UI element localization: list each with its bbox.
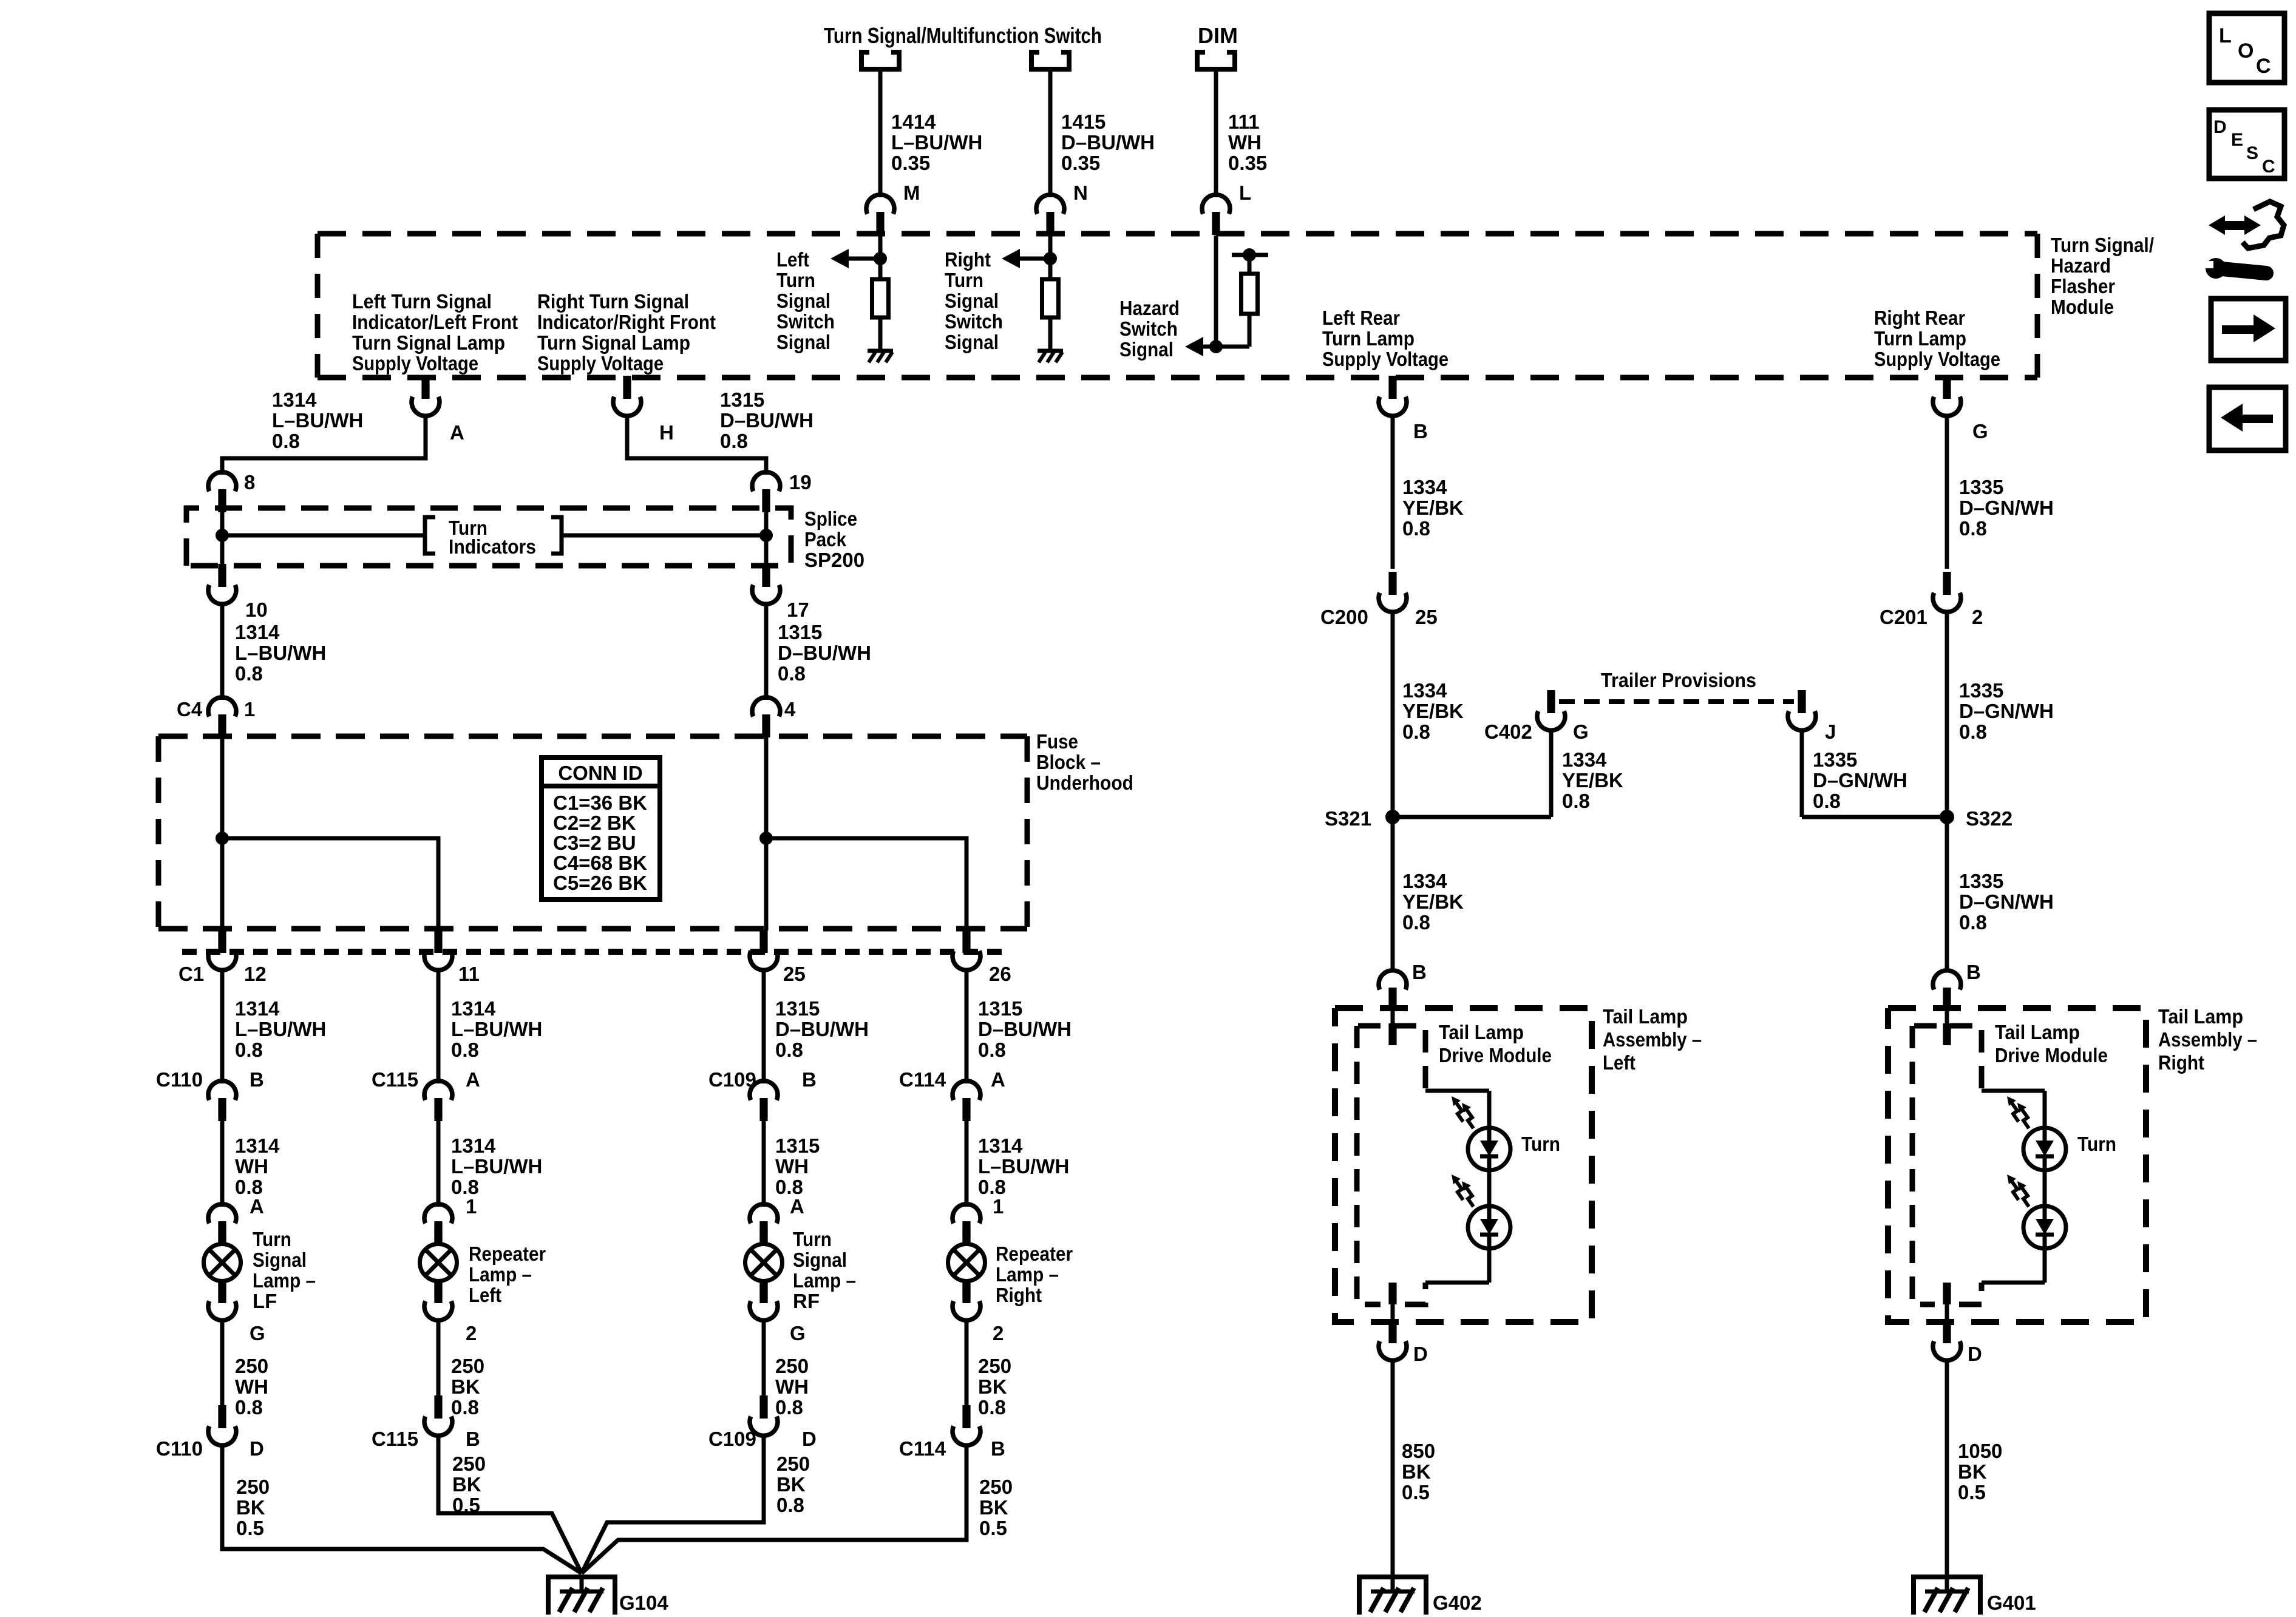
icon left-arrow box: [2209, 387, 2286, 450]
label C114 (bottom): [899, 1437, 946, 1460]
svg-text:Right Rear: Right Rear: [1874, 307, 1965, 329]
label Turn Signal/Multifunction Switch: [824, 23, 1102, 48]
svg-text:1415: 1415: [1061, 110, 1106, 133]
svg-text:Block –: Block –: [1036, 751, 1101, 773]
svg-text:O: O: [2238, 39, 2254, 63]
label wire 1334 YE/BK 0.8 (below C200): [1402, 679, 1464, 743]
svg-text:Tail Lamp: Tail Lamp: [1603, 1005, 1688, 1028]
label C1: [178, 963, 204, 985]
connector C201 pin 2: [1933, 572, 1961, 612]
ground (module internal, left): [868, 351, 893, 362]
bracket right of Turn Indicators: [551, 517, 562, 554]
svg-text:BK: BK: [1402, 1460, 1431, 1483]
svg-text:1334: 1334: [1402, 870, 1447, 892]
label G104: [619, 1592, 668, 1614]
svg-text:Signal: Signal: [776, 331, 830, 353]
label Right Turn Signal Indicator/Right Front Turn Signal Lamp Supply Voltage: [537, 290, 716, 375]
wire drive module to LEDs (right): [1982, 1091, 2045, 1128]
label pin D (left): [1413, 1343, 1428, 1365]
svg-text:Signal: Signal: [776, 290, 830, 312]
svg-text:1314: 1314: [978, 1134, 1023, 1157]
svg-text:S321: S321: [1325, 807, 1371, 830]
icon LOC box: [2209, 13, 2284, 83]
svg-text:C4: C4: [177, 698, 203, 720]
junction on wire L: [1209, 340, 1223, 353]
wire splice to pin 10: [220, 535, 225, 569]
svg-text:0.8: 0.8: [978, 1396, 1006, 1419]
svg-text:1050: 1050: [1958, 1440, 2002, 1462]
label lamp pin 2: [993, 1322, 1004, 1344]
label Tail Lamp Drive Module (left): [1439, 1021, 1552, 1066]
svg-text:S: S: [2246, 143, 2258, 163]
label Turn Signal/Hazard Flasher Module: [2051, 234, 2154, 318]
wire C115 pin B to ground G104: [438, 1434, 582, 1573]
svg-text:1315: 1315: [775, 997, 820, 1020]
svg-text:0.8: 0.8: [451, 1039, 479, 1061]
svg-text:0.8: 0.8: [272, 430, 300, 452]
module border top: Turn Signal/Hazard Flasher Module: [318, 231, 2037, 237]
connector C110 pin D (bottom): [208, 1405, 236, 1445]
label pin 12: [244, 963, 267, 985]
svg-text:Turn: Turn: [1521, 1133, 1560, 1155]
svg-text:Signal: Signal: [793, 1249, 847, 1271]
connector pin 1 (Repeater Lamp - Right): [953, 1204, 980, 1244]
wire 1314 C110 drop: [220, 969, 225, 1083]
label lamp pin A: [250, 1195, 264, 1218]
module border right: [2035, 234, 2040, 378]
svg-text:L–BU/WH: L–BU/WH: [235, 1018, 326, 1040]
svg-text:1334: 1334: [1402, 679, 1447, 702]
label C114: [899, 1068, 946, 1091]
connector pin 8 (splice pack): [208, 472, 236, 512]
wire 1335 module to C201: [1945, 415, 1949, 569]
svg-text:BK: BK: [1958, 1460, 1987, 1483]
svg-text:Lamp –: Lamp –: [469, 1263, 532, 1286]
svg-text:D: D: [250, 1437, 264, 1460]
svg-text:Turn Signal/: Turn Signal/: [2051, 234, 2154, 256]
connector C114 pin B (bottom): [953, 1405, 980, 1445]
label ground wire 250 BK/0.5 (C110): [236, 1476, 270, 1539]
wire M to resistor: [878, 259, 883, 279]
svg-text:1314: 1314: [451, 1134, 496, 1157]
wire branch to pin 26: [766, 838, 966, 931]
svg-text:Repeater: Repeater: [469, 1242, 546, 1265]
svg-text:B: B: [1413, 420, 1428, 442]
svg-text:Switch: Switch: [945, 310, 1003, 333]
svg-text:Tail Lamp: Tail Lamp: [1439, 1021, 1524, 1043]
connector pin 10 (splice pack): [208, 564, 236, 604]
wire 250 below lamp 09: [762, 1319, 766, 1398]
lamp symbol: Turn Signal Lamp - LF: [204, 1227, 241, 1298]
arrow hazard switch signal: [1185, 337, 1216, 356]
svg-text:1315: 1315: [978, 997, 1022, 1020]
svg-text:2: 2: [466, 1322, 477, 1344]
junction on wire N: [1044, 252, 1057, 265]
tail lamp drive module left box: [1357, 1026, 1425, 1304]
label ground wire 250 BK/0.5 (C114): [979, 1476, 1013, 1539]
svg-text:A: A: [466, 1068, 480, 1091]
svg-text:111: 111: [1228, 110, 1259, 133]
svg-text:C: C: [2256, 55, 2271, 78]
LED turn lamp 2 (left): [1452, 1175, 1510, 1249]
wire drive module to LEDs (left): [1425, 1091, 1489, 1128]
connector pin B (flasher module left rear): [1379, 376, 1407, 416]
svg-text:Turn Lamp: Turn Lamp: [1874, 327, 1966, 350]
svg-text:Supply Voltage: Supply Voltage: [537, 352, 664, 375]
label wire 1314 L–BU/WH/0.8 (to Repeater Lamp - Right): [978, 1134, 1069, 1198]
ground G402 symbol: [1359, 1577, 1426, 1615]
label wire 1314 WH/0.8 (to Turn Signal Lamp - LF): [235, 1134, 280, 1198]
svg-text:0.8: 0.8: [775, 1039, 803, 1061]
svg-text:1: 1: [244, 698, 255, 720]
label CONN ID rows: [553, 792, 647, 894]
fuse block border left: [156, 736, 161, 929]
svg-text:Turn: Turn: [2077, 1133, 2116, 1155]
label wire 1314 L-BU/WH 0.8 (to fuse block): [235, 621, 326, 685]
svg-text:Lamp –: Lamp –: [253, 1269, 316, 1292]
svg-text:Pack: Pack: [804, 528, 847, 551]
svg-text:C1: C1: [178, 963, 204, 985]
connector C109 pin D (bottom): [750, 1395, 778, 1436]
label Turn Indicators: [449, 517, 536, 558]
LED turn lamp 1 (right): [2007, 1096, 2066, 1170]
wire pin8 into splice bus: [220, 508, 225, 535]
label Tail Lamp Assembly - left: [1603, 1005, 1702, 1074]
splice S322: [1940, 810, 1954, 824]
svg-text:D–BU/WH: D–BU/WH: [775, 1018, 869, 1040]
wire LEDs return to drive module (right): [1982, 1249, 2045, 1283]
svg-text:250: 250: [236, 1476, 270, 1498]
svg-text:WH: WH: [775, 1375, 809, 1398]
wire 1315 to Turn Signal Lamp - RF: [762, 1120, 766, 1207]
label ground wire 250 BK/0.5 (C115): [452, 1453, 486, 1516]
connector C1 pin 25: [750, 930, 778, 970]
svg-text:D: D: [2213, 117, 2227, 137]
svg-text:Supply Voltage: Supply Voltage: [352, 352, 478, 375]
label pin B (module): [1413, 420, 1428, 442]
svg-text:C3=2 BU: C3=2 BU: [553, 832, 636, 854]
tail lamp assembly left outer box: [1335, 1008, 1592, 1322]
connector C1 pin 26: [953, 930, 980, 970]
svg-text:C110: C110: [156, 1068, 203, 1091]
connector C200 pin 25: [1379, 572, 1407, 612]
svg-text:A: A: [250, 1195, 264, 1218]
label Tail Lamp Drive Module (right): [1995, 1021, 2108, 1066]
svg-text:D–GN/WH: D–GN/WH: [1959, 497, 2054, 519]
label Fuse Block - Underhood: [1036, 730, 1133, 794]
svg-text:G104: G104: [619, 1592, 668, 1614]
module border bottom: [318, 375, 2037, 381]
svg-text:Turn Signal Lamp: Turn Signal Lamp: [537, 331, 690, 354]
svg-text:B: B: [1966, 961, 1981, 983]
svg-text:BK: BK: [978, 1375, 1007, 1398]
label lamp pin 2: [466, 1322, 477, 1344]
svg-text:C115: C115: [372, 1068, 418, 1091]
label Left Rear Turn Lamp Supply Voltage: [1322, 307, 1449, 370]
svg-text:0.8: 0.8: [1959, 911, 1987, 934]
connector C114 pin A: [953, 1081, 980, 1121]
label Turn (right): [2077, 1133, 2116, 1155]
connector C109 pin B: [750, 1081, 778, 1121]
svg-text:C114: C114: [899, 1068, 946, 1091]
label wire 1335 D-GN/WH 0.8 (below S322): [1959, 870, 2054, 934]
label C110: [156, 1068, 203, 1091]
svg-text:1315: 1315: [720, 388, 764, 411]
svg-text:Signal: Signal: [1119, 338, 1173, 361]
svg-text:Underhood: Underhood: [1036, 771, 1133, 794]
svg-text:L–BU/WH: L–BU/WH: [451, 1155, 542, 1178]
svg-text:C1=36 BK: C1=36 BK: [553, 792, 647, 814]
svg-text:11: 11: [458, 963, 480, 985]
connector pin N: [1036, 195, 1064, 235]
svg-text:D–BU/WH: D–BU/WH: [778, 642, 871, 664]
svg-text:G401: G401: [1987, 1592, 2036, 1614]
svg-text:BK: BK: [451, 1375, 480, 1398]
svg-text:G: G: [1573, 720, 1589, 743]
svg-text:250: 250: [979, 1476, 1013, 1498]
svg-text:C5=26 BK: C5=26 BK: [553, 872, 647, 894]
wire 1314 splice to fuse block: [220, 603, 225, 700]
connector pin B (tail lamp assembly left): [1379, 971, 1407, 1011]
wire drive module output (left): [1388, 1283, 1396, 1326]
svg-text:D: D: [802, 1428, 817, 1450]
svg-text:L–BU/WH: L–BU/WH: [235, 642, 326, 664]
svg-text:D: D: [1968, 1343, 1982, 1365]
connector pin A (Turn Signal Lamp - LF): [208, 1204, 236, 1244]
wire S321 to C402 branch: [1393, 815, 1551, 819]
svg-text:10: 10: [245, 598, 268, 621]
wire B into drive module (left): [1388, 992, 1396, 1045]
svg-text:C109: C109: [708, 1068, 756, 1091]
LED turn lamp 2 (right): [2007, 1175, 2066, 1249]
svg-text:BK: BK: [979, 1496, 1008, 1519]
connector pin G (Turn Signal Lamp - RF): [750, 1280, 778, 1320]
svg-text:0.8: 0.8: [778, 662, 806, 685]
svg-text:CONN ID: CONN ID: [558, 762, 642, 784]
svg-text:D: D: [1413, 1343, 1428, 1365]
svg-text:D–BU/WH: D–BU/WH: [1061, 131, 1155, 154]
svg-text:Drive Module: Drive Module: [1995, 1044, 2108, 1066]
svg-text:J: J: [1825, 720, 1836, 743]
svg-text:0.5: 0.5: [236, 1517, 264, 1539]
label pin 17: [787, 598, 809, 621]
wire 1415 (switch to N): [1048, 69, 1053, 197]
label Turn (left): [1521, 1133, 1560, 1155]
label lamp pin 1: [993, 1195, 1004, 1218]
svg-text:Indicators: Indicators: [449, 535, 536, 558]
label Turn Signal Lamp - RF: [793, 1228, 856, 1312]
svg-text:Signal: Signal: [945, 290, 999, 312]
bracket left of Turn Indicators: [425, 517, 435, 554]
svg-text:Turn Signal/Multifunction Swit: Turn Signal/Multifunction Switch: [824, 23, 1102, 48]
label wire 1335 D-GN/WH 0.8 (below C201): [1959, 679, 2054, 743]
label wire 850 BK 0.5 (left): [1402, 1440, 1435, 1503]
svg-text:Left Turn Signal: Left Turn Signal: [352, 290, 492, 313]
svg-text:0.8: 0.8: [1402, 911, 1430, 934]
svg-text:SP200: SP200: [804, 549, 864, 571]
wire between LEDs (right): [2043, 1170, 2047, 1206]
wire C109 pin D to ground G104: [582, 1434, 764, 1573]
svg-text:250: 250: [235, 1355, 268, 1377]
svg-text:250: 250: [452, 1453, 486, 1475]
fuse block border top: [158, 734, 1027, 739]
svg-text:Assembly –: Assembly –: [2158, 1028, 2257, 1051]
wire into splice connector 8: [220, 458, 225, 475]
junction fuse block right: [759, 832, 773, 845]
svg-text:Indicator/Left Front: Indicator/Left Front: [352, 311, 518, 333]
wire 250 below lamp 15: [436, 1319, 441, 1398]
label wire 1050 BK 0.5 (right): [1958, 1440, 2002, 1503]
label wire 1315 D-BU/WH 0.8 (to fuse block): [778, 621, 871, 685]
connector pin J (trailer provisions): [1788, 690, 1816, 730]
svg-text:Supply Voltage: Supply Voltage: [1874, 348, 2000, 370]
svg-text:C200: C200: [1320, 606, 1368, 628]
svg-text:0.8: 0.8: [235, 662, 263, 685]
ground wire 850 (left): [1391, 1359, 1395, 1577]
label wire 250 BK/0.8: [978, 1355, 1011, 1419]
svg-text:Switch: Switch: [1119, 317, 1178, 340]
label pin A of C115: [466, 1068, 480, 1091]
CONN ID table box: [542, 758, 660, 900]
connector pin L: [1202, 195, 1230, 235]
svg-text:250: 250: [451, 1355, 484, 1377]
svg-text:Right: Right: [2158, 1051, 2204, 1074]
svg-text:Left: Left: [469, 1284, 501, 1306]
wire splice to pin 17: [764, 535, 769, 569]
connector pin A (flasher module): [412, 376, 440, 416]
svg-text:0.8: 0.8: [720, 430, 748, 452]
svg-text:S322: S322: [1966, 807, 2012, 830]
ground (module internal, right): [1038, 351, 1063, 362]
connector pin 1 (Repeater Lamp - Left): [424, 1204, 452, 1244]
label Turn Signal Lamp - LF: [253, 1228, 316, 1312]
svg-text:C115: C115: [372, 1428, 418, 1450]
label wire 1314 L–BU/WH/0.8 (above C110): [235, 997, 326, 1061]
label pin 26: [989, 963, 1011, 985]
svg-text:B: B: [991, 1437, 1005, 1460]
ground G104 symbol: [548, 1577, 615, 1615]
wire trailer branch up to C402 G: [1549, 729, 1554, 817]
svg-text:12: 12: [244, 963, 267, 985]
svg-text:A: A: [991, 1068, 1005, 1091]
wire resistor to ground: [878, 317, 883, 351]
label pin A of C114: [991, 1068, 1005, 1091]
lamp symbol: Repeater Lamp - Right: [948, 1227, 985, 1298]
svg-text:WH: WH: [235, 1155, 268, 1178]
splice bus left segment: [222, 534, 423, 538]
label wire 1315 D–BU/WH/0.8 (above C114): [978, 997, 1072, 1061]
svg-text:M: M: [903, 181, 920, 204]
label Trailer Provisions: [1601, 669, 1756, 691]
label C115: [372, 1068, 418, 1091]
label lamp pin G: [790, 1322, 806, 1344]
svg-text:Turn: Turn: [945, 269, 983, 291]
svg-text:Module: Module: [2051, 296, 2114, 318]
label pin B (C115 bottom): [466, 1428, 480, 1450]
icon DESC box: [2209, 110, 2284, 178]
svg-text:0.8: 0.8: [1959, 517, 1987, 540]
wire fuse block column 25: [764, 733, 769, 931]
svg-text:L: L: [2219, 24, 2232, 47]
wire 1334 module to C200: [1391, 415, 1395, 569]
resistor (right turn input pull-down): [1042, 279, 1059, 317]
svg-text:BK: BK: [776, 1473, 806, 1496]
wire J to S322: [1802, 815, 1947, 819]
connector C1 pin 12: [208, 930, 236, 970]
svg-text:A: A: [450, 421, 464, 444]
wire 1334 C200 to S321: [1391, 611, 1395, 810]
svg-text:Lamp –: Lamp –: [793, 1269, 856, 1292]
label pin B (tail lamp left): [1412, 961, 1427, 983]
label pin D (right): [1968, 1343, 1982, 1365]
svg-text:1: 1: [993, 1195, 1004, 1218]
svg-text:B: B: [802, 1068, 817, 1091]
junction on wire M: [874, 252, 887, 265]
svg-text:Turn Lamp: Turn Lamp: [1322, 327, 1415, 350]
svg-text:G402: G402: [1433, 1592, 1482, 1614]
svg-text:Left Rear: Left Rear: [1322, 307, 1400, 329]
wire 1414 (switch to M): [878, 69, 883, 197]
svg-text:C109: C109: [708, 1428, 756, 1450]
svg-text:D–BU/WH: D–BU/WH: [720, 409, 813, 432]
label G401: [1987, 1592, 2036, 1614]
connector pin 19 (splice pack): [752, 472, 780, 512]
label DIM: [1198, 23, 1238, 48]
label C109 (bottom): [708, 1428, 756, 1450]
svg-text:WH: WH: [235, 1375, 268, 1398]
wire pin19 into splice bus: [764, 508, 769, 535]
label pin 19: [789, 471, 812, 493]
wire 1335 S322 to tail lamp: [1945, 817, 1949, 972]
svg-text:1314: 1314: [272, 388, 317, 411]
svg-text:L: L: [1239, 181, 1251, 204]
fuse block border right: [1025, 736, 1030, 929]
wire C114 pin B to ground G104: [582, 1444, 966, 1573]
svg-text:1314: 1314: [235, 997, 280, 1020]
svg-text:1335: 1335: [1813, 748, 1857, 771]
label pin A: [450, 421, 464, 444]
svg-text:1334: 1334: [1562, 748, 1607, 771]
tail lamp drive module right box: [1912, 1026, 1982, 1304]
svg-text:RF: RF: [793, 1290, 820, 1312]
svg-text:17: 17: [787, 598, 809, 621]
label CONN ID: [558, 762, 642, 784]
label Right Turn Signal Switch Signal: [945, 248, 1003, 353]
svg-text:Splice: Splice: [804, 507, 857, 530]
wire 1315 C109 drop: [762, 969, 766, 1083]
label C402: [1484, 720, 1532, 743]
label Left Turn Signal Switch Signal: [776, 248, 835, 353]
svg-text:L–BU/WH: L–BU/WH: [891, 131, 982, 154]
label wire 1335 D-GN/WH 0.8 (trailer branch): [1813, 748, 1907, 812]
svg-text:0.8: 0.8: [776, 1494, 804, 1516]
label pin H: [659, 421, 674, 444]
label lamp pin A: [790, 1195, 804, 1218]
wire fuse block column 12: [220, 733, 225, 931]
lamp symbol: Turn Signal Lamp - RF: [746, 1227, 783, 1298]
svg-text:Turn: Turn: [253, 1228, 291, 1250]
svg-text:WH: WH: [1228, 131, 1262, 154]
svg-text:B: B: [466, 1428, 480, 1450]
svg-text:G: G: [1972, 420, 1988, 442]
label wire 1314 L–BU/WH/0.8 (to Repeater Lamp - Left): [451, 1134, 542, 1198]
wire drive module output (right): [1943, 1283, 1951, 1326]
label Repeater Lamp - Right: [996, 1242, 1073, 1306]
svg-text:Flasher: Flasher: [2051, 275, 2115, 297]
svg-text:Lamp –: Lamp –: [996, 1263, 1059, 1286]
connector housing: turn signal/multifunction switch (left): [861, 52, 899, 69]
svg-text:C114: C114: [899, 1437, 946, 1460]
